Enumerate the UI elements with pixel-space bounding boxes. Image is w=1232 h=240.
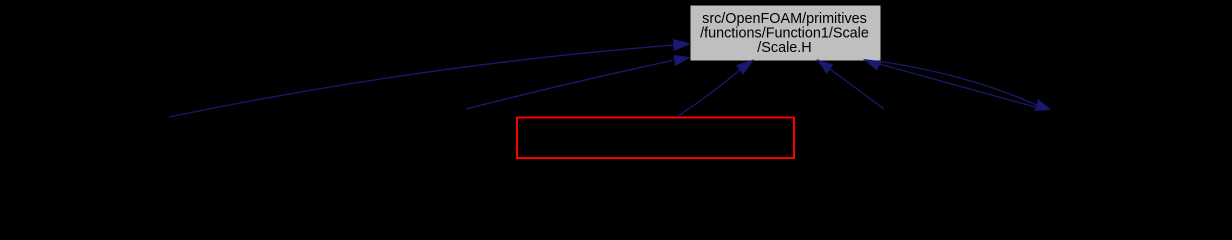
edge 6: far-right node -> Scale.H: [865, 60, 1036, 107]
edge 5: Scale.H -> far-right node: [881, 62, 1050, 111]
edge 4: lower-right node -> Scale.H: [818, 60, 884, 109]
edge 2: mid-left node -> Scale.H: [466, 56, 689, 109]
node: src/OpenFOAM/primitives/functions/Function1/Scale/Scale.H (gray box): [690, 5, 881, 61]
svg-text:/Scale.H: /Scale.H: [757, 40, 811, 56]
edge 3: red box -> Scale.H: [678, 60, 753, 116]
node: current file (red box, label invisible on black): [517, 118, 794, 159]
edge 1: far-left node -> Scale.H: [169, 40, 690, 117]
